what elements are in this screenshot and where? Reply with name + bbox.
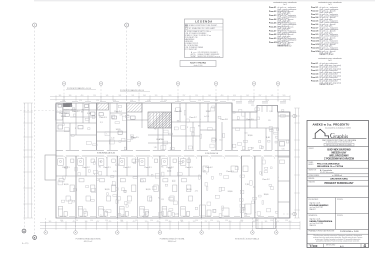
svg-text:1,50: 1,50: [270, 220, 273, 222]
svg-text:POZIOM POSADZKI +14,50: POZIOM POSADZKI +14,50: [67, 87, 91, 90]
svg-text:12,5: 12,5: [100, 122, 103, 124]
svg-text:1,50: 1,50: [210, 220, 213, 222]
bottom band partitions: [65, 157, 67, 176]
svg-text:12,5: 12,5: [161, 199, 164, 201]
svg-text:L E G E N D A: L E G E N D A: [195, 19, 212, 23]
svg-text:520: 520: [119, 95, 122, 97]
grid axis line x=126.7 (tall): [126, 27, 128, 103]
svg-text:Ł: Ł: [278, 177, 279, 179]
grid axis 3 top bubble x=139: [137, 82, 141, 86]
legend box: [185, 19, 224, 58]
svg-text:12,5: 12,5: [72, 109, 75, 111]
svg-text:Pom.1.2: Pom.1.2: [82, 167, 89, 169]
svg-text:ANEKS w 5 p. PROJEKTU: ANEKS w 5 p. PROJEKTU: [313, 123, 350, 127]
svg-text:520: 520: [283, 95, 286, 97]
svg-text:Ł: Ł: [200, 119, 201, 121]
stair core 2 extra hatch: [148, 112, 172, 128]
svg-text:Pom.6.3: Pom.6.3: [311, 70, 318, 72]
grid axis bottom bubble x=117.3: [116, 231, 120, 235]
svg-text:145: 145: [271, 95, 274, 97]
svg-text:410: 410: [169, 221, 172, 223]
svg-text:18,40: 18,40: [264, 194, 269, 196]
svg-text:16,20: 16,20: [105, 189, 110, 191]
svg-text:Ł: Ł: [101, 215, 102, 217]
svg-text:1,50: 1,50: [150, 220, 153, 222]
svg-text:1,20: 1,20: [215, 100, 218, 102]
svg-text:16,20: 16,20: [64, 184, 69, 186]
svg-text:365: 365: [143, 95, 146, 97]
svg-text:BOGDAN KAMIŃSKI: BOGDAN KAMIŃSKI: [310, 204, 329, 207]
svg-text:1,20: 1,20: [181, 100, 184, 102]
grid axis bottom bubble x=159.9: [158, 231, 162, 235]
stair core hatch 2: [148, 112, 172, 128]
svg-text:PODPIS:: PODPIS:: [337, 215, 344, 217]
svg-text:1,50: 1,50: [135, 220, 138, 222]
svg-text:120: 120: [85, 221, 88, 223]
top band unit walls: [96, 103, 98, 150]
svg-text:Pom.5.10: Pom.5.10: [311, 37, 319, 39]
svg-text:INWESTOR:: INWESTOR:: [309, 170, 317, 172]
svg-text:Pom.5.3: Pom.5.3: [99, 117, 106, 119]
svg-text:Pom.5.1: Pom.5.1: [311, 7, 318, 9]
svg-text:257: 257: [205, 221, 208, 223]
svg-text:P: P: [187, 127, 188, 129]
svg-text:145: 145: [208, 95, 211, 97]
svg-text:NR RYSUNKU:: NR RYSUNKU:: [326, 245, 336, 247]
svg-text:1,85: 1,85: [203, 171, 206, 173]
svg-text:Pom.6.6: Pom.6.6: [311, 81, 318, 83]
svg-text:Pom.4.1: Pom.4.1: [269, 6, 276, 9]
grid axis bubble top x=126.7: [125, 23, 129, 27]
svg-text:1,50: 1,50: [255, 220, 258, 222]
drawing title box: [180, 61, 216, 67]
svg-text:4,70: 4,70: [195, 191, 198, 193]
svg-text:A-05: A-05: [340, 245, 344, 248]
stair core hatch 3: [97, 103, 109, 110]
svg-text:Pom.4.7: Pom.4.7: [269, 29, 276, 32]
svg-text:16,20: 16,20: [187, 189, 192, 191]
empty drawing title row: [307, 197, 369, 199]
scan top edge: [34, 0, 375, 2]
svg-text:Pom.5.8: Pom.5.8: [311, 31, 318, 33]
svg-text:1,20: 1,20: [96, 100, 99, 102]
svg-text:12,80: 12,80: [206, 111, 211, 113]
svg-text:Pom.2.1: Pom.2.1: [103, 167, 110, 169]
svg-text:24,60: 24,60: [228, 191, 233, 193]
svg-text:Pom.4.2: Pom.4.2: [205, 167, 212, 169]
svg-text:145: 145: [246, 95, 249, 97]
grid axis 4 top bubble x=178: [176, 82, 180, 86]
svg-text:WYSOKOŚĆ KONDYGNACJI: WYSOKOŚĆ KONDYGNACJI: [235, 238, 260, 241]
svg-text:1,50: 1,50: [75, 220, 78, 222]
right dimension chain: [295, 108, 297, 218]
svg-text:8 x 17,5: 8 x 17,5: [22, 243, 28, 245]
svg-text:Pom.5.6: Pom.5.6: [311, 24, 318, 26]
svg-text:520: 520: [169, 95, 172, 97]
grid axis line x=24.7: [24, 103, 26, 229]
corridor wall upper y=150: [56, 150, 290, 152]
svg-text:Pom.5.7: Pom.5.7: [311, 27, 318, 29]
level label left of axis at x=120: [120, 91, 150, 93]
svg-text:257: 257: [277, 221, 280, 223]
east wing cross walls: [278, 115, 290, 117]
svg-text:12,40: 12,40: [61, 116, 66, 118]
svg-text:Pom.5.4: Pom.5.4: [114, 111, 121, 113]
svg-text:Pom.2.2: Pom.2.2: [123, 167, 130, 169]
unit beds and furniture bottom band: [58, 159, 251, 216]
svg-text:ŚC. DZIAŁOWE / ŚC. GIPS.-KART.: ŚC. DZIAŁOWE / ŚC. GIPS.-KART.: [189, 27, 216, 30]
svg-text:NIP 522-010-24-45 REGON 01224: NIP 522-010-24-45 REGON 012245881: [326, 144, 352, 146]
grid axis 6 top bubble x=254: [252, 82, 256, 86]
corridor wall lower y=157: [56, 155, 290, 157]
grid axis bottom bubble x=276.3: [275, 231, 279, 235]
svg-text:OBIEKT:: OBIEKT:: [309, 148, 315, 150]
svg-text:Pom.5.8: Pom.5.8: [220, 119, 227, 121]
svg-text:Ł: Ł: [107, 133, 108, 135]
svg-text:KOMUNIKACJA: KOMUNIKACJA: [205, 152, 219, 155]
left axis dashed horizontal: [20, 109, 63, 111]
svg-text:1,50: 1,50: [90, 220, 93, 222]
room labels bottom band: [62, 167, 269, 196]
svg-text:KOMUNIKACJA 35,60: KOMUNIKACJA 35,60: [97, 151, 115, 154]
graphis underline: [313, 138, 367, 140]
svg-text:Pom.4.5: Pom.4.5: [269, 22, 276, 25]
svg-text:1,20: 1,20: [198, 100, 201, 102]
svg-text:145: 145: [106, 95, 109, 97]
bottom band horizontal partitions: [56, 175, 76, 177]
svg-text:257: 257: [97, 221, 100, 223]
svg-text:1,85: 1,85: [154, 147, 157, 149]
svg-text:Pom.6.4: Pom.6.4: [311, 73, 319, 76]
bottom dimension chain: [40, 222, 300, 224]
svg-text:Pom.5.1: Pom.5.1: [226, 171, 233, 173]
svg-text:4,70: 4,70: [113, 171, 116, 173]
svg-text:410: 410: [81, 95, 84, 97]
svg-text:1,20: 1,20: [113, 100, 116, 102]
grid axis 2 top bubble x=101: [99, 82, 103, 86]
svg-text:Pom.4.6: Pom.4.6: [269, 26, 276, 29]
svg-text:7,20: 7,20: [245, 184, 249, 186]
svg-text:12,5: 12,5: [245, 132, 248, 134]
legend rows: [185, 24, 224, 51]
grid axis bubble top x=34.6: [33, 23, 37, 27]
svg-text:Pom.4.1: Pom.4.1: [185, 167, 192, 169]
svg-text:1,20: 1,20: [249, 100, 252, 102]
svg-text:365: 365: [59, 95, 62, 97]
svg-text:1,85: 1,85: [269, 111, 272, 113]
axis bubble bottom-left B: [33, 236, 37, 240]
top dimension chain: [50, 96, 290, 98]
west balcony: [45, 155, 56, 180]
svg-text:Pom.5.13: Pom.5.13: [311, 47, 319, 49]
svg-text:h=2,20: h=2,20: [174, 213, 179, 215]
grid axis bottom bubble x=75.5: [74, 231, 78, 235]
unit closet rects: [59, 179, 193, 202]
svg-text:14,20: 14,20: [116, 129, 121, 131]
svg-text:1,50: 1,50: [240, 220, 243, 222]
svg-text:Pom.4.9: Pom.4.9: [269, 37, 276, 40]
svg-text:do pozwolenia na budowę nr 11: do pozwolenia na budowę nr 114/05: [325, 127, 351, 129]
window dimension texts north: [62, 100, 286, 102]
svg-text:1,20: 1,20: [147, 100, 150, 102]
svg-text:WIELORODZINNY: WIELORODZINNY: [329, 156, 349, 158]
svg-text:3,15: 3,15: [282, 149, 285, 151]
svg-text:Pom.5.6: Pom.5.6: [174, 111, 181, 113]
grid axis line x=34.6 (tall left axis): [34, 27, 36, 236]
svg-text:1,20: 1,20: [79, 100, 82, 102]
svg-text:Pom.5.9: Pom.5.9: [311, 34, 318, 36]
svg-text:P: P: [75, 128, 76, 130]
top band partitions: [62, 103, 64, 123]
north facade windows: [60, 101, 66, 103]
corridor door openings: [63, 150, 66, 152]
svg-text:Pom.5.1: Pom.5.1: [59, 113, 66, 115]
svg-text:Pom.5.7: Pom.5.7: [189, 117, 196, 119]
south facade windows: [60, 216, 66, 218]
svg-text:Pom.6.5: Pom.6.5: [311, 77, 318, 79]
svg-text:Pom.5.11: Pom.5.11: [311, 41, 319, 43]
svg-text:120: 120: [217, 221, 220, 223]
svg-text:Pom.5.2: Pom.5.2: [311, 11, 318, 13]
svg-text:32,60: 32,60: [248, 135, 253, 137]
svg-text:Pom.5.4: Pom.5.4: [311, 16, 319, 19]
svg-text:POZWOLENIE nr 114/05: POZWOLENIE nr 114/05: [340, 230, 359, 233]
svg-text:Pom.4.3: Pom.4.3: [269, 14, 276, 17]
svg-text:nr 4: nr 4: [283, 4, 286, 6]
svg-text:P: P: [100, 161, 101, 163]
svg-text:12,5: 12,5: [219, 140, 222, 142]
svg-text:POZIOM POSADZKI +14,50: POZIOM POSADZKI +14,50: [120, 89, 144, 92]
svg-text:2,40: 2,40: [111, 137, 114, 139]
svg-text:Pom.5.5: Pom.5.5: [311, 21, 318, 23]
svg-text:410: 410: [221, 95, 224, 97]
svg-text:Pom.4.10: Pom.4.10: [269, 41, 277, 44]
svg-text:1,50: 1,50: [285, 220, 288, 222]
svg-text:Pom.5.12: Pom.5.12: [311, 44, 319, 46]
building outer wall outline: [56, 103, 290, 218]
svg-text:1,50: 1,50: [120, 220, 123, 222]
svg-text:RAZEM: 64,20 m2: RAZEM: 64,20 m2: [278, 45, 292, 48]
svg-text:PROJEKT BUDOWLANY: PROJEKT BUDOWLANY: [324, 182, 353, 185]
svg-text:1,50: 1,50: [60, 220, 63, 222]
east wing fixture: [280, 142, 285, 147]
svg-text:3,15: 3,15: [133, 138, 136, 140]
svg-text:MIESZKALNY: MIESZKALNY: [332, 152, 347, 155]
svg-text:PODPIS:: PODPIS:: [337, 199, 344, 201]
svg-text:8,40: 8,40: [266, 137, 270, 139]
scattered tiny annotation texts: [72, 105, 284, 217]
svg-text:1,50: 1,50: [180, 220, 183, 222]
svg-text:Pom.4.8: Pom.4.8: [269, 33, 276, 36]
svg-text:1,85: 1,85: [168, 168, 171, 170]
top-left extra partitions and fixtures: [56, 105, 135, 136]
west balcony top-left: [56, 104, 63, 120]
axis bubble bottom-left A: [22, 229, 26, 233]
svg-text:nr 5: nr 5: [328, 4, 331, 6]
svg-text:455: 455: [109, 221, 112, 223]
svg-text:ARCHITEKTURA: ARCHITEKTURA: [330, 177, 348, 180]
grid axis 7 top bubble x=278: [276, 82, 280, 86]
svg-text:1,20: 1,20: [232, 100, 235, 102]
svg-text:NIEGLIŃSKA 10 m. PIOTRA: NIEGLIŃSKA 10 m. PIOTRA: [317, 165, 344, 168]
svg-text:1,20: 1,20: [266, 100, 269, 102]
svg-text:257: 257: [259, 95, 262, 97]
room labels top band: [59, 111, 269, 141]
svg-text:257: 257: [183, 95, 186, 97]
svg-text:Pom.4.4: Pom.4.4: [269, 18, 277, 21]
svg-text:Ł: Ł: [175, 108, 176, 110]
svg-text:Pom.3.1: Pom.3.1: [144, 167, 151, 169]
grid axis right bubble y=116: [293, 114, 297, 118]
svg-text:120: 120: [145, 221, 148, 223]
note paragraph: [313, 234, 363, 242]
svg-text:PKT. ŚWIETLNY: PKT. ŚWIETLNY: [185, 48, 199, 51]
svg-text:Pom.5.2: Pom.5.2: [262, 179, 269, 181]
legend note block: [191, 51, 221, 58]
svg-text:Pom.6.2: Pom.6.2: [311, 67, 318, 69]
svg-text:Pom.5.2: Pom.5.2: [72, 111, 79, 113]
svg-text:skala 1:100: skala 1:100: [194, 65, 203, 67]
svg-text:1:100: 1:100: [310, 244, 318, 248]
logo stamp box: [324, 143, 354, 146]
graphis logo house: [315, 129, 328, 138]
svg-text:365: 365: [265, 221, 268, 223]
svg-text:5,20: 5,20: [87, 113, 91, 115]
svg-text:nr 6: nr 6: [328, 60, 331, 62]
svg-text:120: 120: [195, 95, 198, 97]
title block outer border: [307, 121, 369, 248]
svg-text:2,40: 2,40: [251, 148, 254, 150]
grid axis bottom bubble x=45.7: [44, 231, 48, 235]
svg-text:1,50: 1,50: [165, 220, 168, 222]
svg-text:ŚCIANY KONSTRUKCYJNE ŻELBET.: ŚCIANY KONSTRUKCYJNE ŻELBET.: [189, 24, 218, 27]
svg-text:120: 120: [93, 95, 96, 97]
svg-text:145: 145: [132, 95, 135, 97]
svg-text:1,20: 1,20: [164, 100, 167, 102]
stair steps core 2: [149, 112, 151, 128]
grid axis 5 top bubble x=216: [214, 82, 218, 86]
svg-text:410: 410: [157, 221, 160, 223]
svg-text:RAZEM: 72,40 m2: RAZEM: 72,40 m2: [320, 53, 334, 56]
grid axis 1 top bubble x=64: [62, 82, 66, 86]
furniture and fixtures noise bottom band: [58, 159, 278, 217]
svg-text:Pom.5.9: Pom.5.9: [246, 119, 253, 121]
furniture and fixtures noise top band: [62, 105, 289, 150]
svg-text:HANNA TOMASZEWSKA: HANNA TOMASZEWSKA: [310, 220, 333, 223]
svg-text:1,20: 1,20: [130, 100, 133, 102]
top band horizontal partitions: [56, 122, 97, 124]
svg-text:Z PODZIEMNYM GARAŻEM: Z PODZIEMNYM GARAŻEM: [324, 158, 354, 161]
svg-text:1,50: 1,50: [195, 220, 198, 222]
bottom band unit walls: [75, 156, 77, 218]
svg-text:465,20 m2: 465,20 m2: [84, 241, 93, 243]
svg-text:Pom.6.1: Pom.6.1: [311, 63, 318, 65]
svg-text:410: 410: [229, 221, 232, 223]
east wing strip: [278, 112, 290, 218]
svg-text:388,40 m2: 388,40 m2: [168, 241, 177, 243]
svg-text:1,20: 1,20: [62, 100, 65, 102]
svg-text:12,5: 12,5: [251, 105, 254, 107]
svg-text:180: 180: [69, 95, 72, 97]
svg-text:410: 410: [289, 221, 292, 223]
south terrace right: [256, 218, 276, 229]
svg-text:12,5: 12,5: [127, 202, 130, 204]
svg-text:BUDYNEK BIUROWO: BUDYNEK BIUROWO: [327, 150, 351, 152]
level label between axes 1-2: [66, 89, 96, 91]
grid axis right bubble y=214: [293, 212, 297, 216]
svg-text:1,50: 1,50: [105, 220, 108, 222]
shaft box internal ticks: [261, 106, 263, 113]
svg-text:3,15: 3,15: [121, 215, 124, 217]
svg-text:410: 410: [233, 95, 236, 97]
svg-text:Ł: Ł: [255, 212, 256, 214]
svg-text:365: 365: [49, 221, 52, 223]
svg-text:RAZEM: 38,60 m2: RAZEM: 38,60 m2: [320, 83, 334, 86]
grid axis bottom bubble x=252.4: [251, 231, 255, 235]
signature column divider: [334, 198, 336, 230]
svg-text:120: 120: [155, 95, 158, 97]
svg-text:KLATKA: KLATKA: [156, 138, 164, 141]
svg-text:16,20: 16,20: [146, 189, 151, 191]
window dimension texts south: [60, 220, 288, 222]
left dimension chain: [24, 103, 26, 218]
svg-text:4,70: 4,70: [120, 115, 123, 117]
svg-text:Pom.1.1: Pom.1.1: [62, 167, 69, 169]
svg-text:h=2,20: h=2,20: [204, 116, 209, 118]
svg-text:1,50: 1,50: [225, 220, 228, 222]
svg-text:raphis: raphis: [335, 134, 348, 140]
entrance dark block top-left: [63, 103, 71, 107]
svg-text:1,20: 1,20: [283, 100, 286, 102]
svg-text:Pom.4.2: Pom.4.2: [269, 10, 276, 13]
svg-text:Pom.5.3: Pom.5.3: [311, 14, 318, 16]
grid axis bottom bubble x=201.6: [200, 231, 204, 235]
